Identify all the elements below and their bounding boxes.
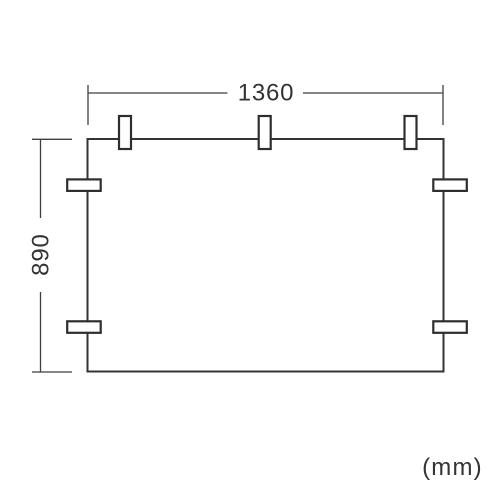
top tab 3	[405, 116, 417, 149]
top tab 1	[119, 116, 131, 149]
dimension 890 extension tick bottom	[32, 371, 72, 373]
dimension 1360 extension tick left	[87, 85, 89, 125]
dimension 890 line upper segment	[40, 139, 42, 218]
dimension 1360 line left segment	[88, 92, 228, 94]
right tab lower	[433, 321, 467, 333]
svg-text:(mm): (mm)	[422, 454, 483, 481]
top tab 2	[259, 116, 271, 149]
right tab upper	[433, 179, 467, 191]
svg-text:1360: 1360	[238, 80, 295, 107]
dimension 890 extension tick top	[32, 138, 72, 140]
svg-text:890: 890	[28, 233, 55, 275]
dimension 890 line lower segment	[40, 292, 42, 372]
dimension 1360 extension tick right	[442, 85, 444, 125]
left tab lower	[67, 321, 101, 333]
left tab upper	[67, 179, 101, 191]
panel outline	[88, 139, 444, 372]
dimension 1360 line right segment	[303, 92, 443, 94]
